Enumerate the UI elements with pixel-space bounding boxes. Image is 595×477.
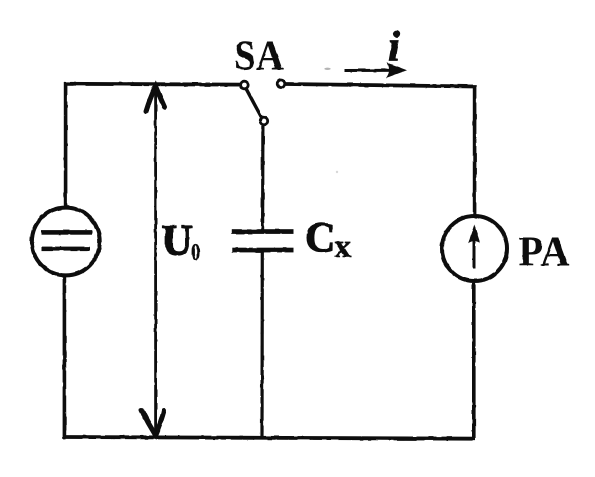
- label Cx: [305, 216, 352, 266]
- svg-text:C: C: [305, 216, 335, 262]
- wire switch to capacitor: [261, 126, 264, 230]
- svg-text:0: 0: [191, 240, 200, 266]
- label PA: [519, 230, 571, 276]
- voltage source G (circle with two bars): [32, 208, 100, 276]
- svg-text:U: U: [162, 218, 193, 265]
- svg-text:x: x: [335, 229, 352, 265]
- wire capacitor to bottom: [260, 252, 263, 438]
- label U0: [162, 218, 201, 267]
- switch SA: [241, 80, 285, 125]
- svg-text:PA: PA: [519, 230, 571, 276]
- svg-text:SA: SA: [234, 34, 285, 80]
- current arrow i: [345, 63, 408, 79]
- scan speck: [324, 68, 330, 70]
- capacitor Cx: [232, 229, 294, 252]
- wire top-left segment: [64, 82, 240, 87]
- label SA: [234, 34, 285, 80]
- wire left side: [64, 82, 65, 438]
- wire right side: [472, 85, 476, 438]
- scan speck: [336, 171, 338, 173]
- ammeter PA: [442, 216, 507, 281]
- wire bottom: [63, 437, 475, 439]
- label i: [388, 24, 400, 71]
- voltage arrow U0 (double-headed): [142, 87, 165, 436]
- wire top-right segment: [286, 84, 477, 87]
- svg-text:i: i: [388, 24, 400, 71]
